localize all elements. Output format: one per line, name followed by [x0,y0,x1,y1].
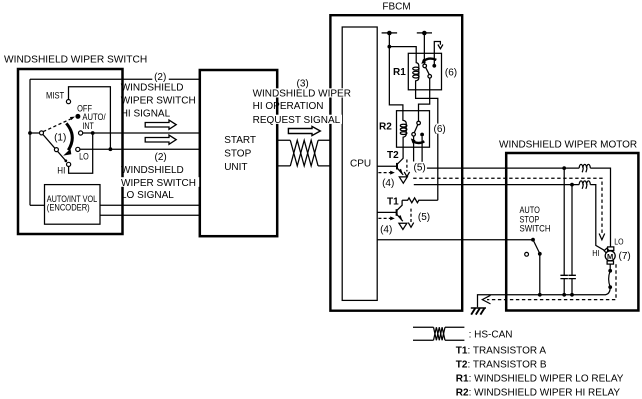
svg-text:HI: HI [57,165,65,175]
ground: body ground at FBCM [471,307,486,309]
motor internal auto-stop contact [609,264,611,270]
wire: R2 moving contact drop [413,136,415,161]
node: branch to R1 coil [387,45,391,49]
label: windshield wiper hi operation request signal [252,88,356,97]
wire: auto stop switch drop [539,254,541,295]
label (6) R2 [432,124,448,134]
svg-text:WINDSHIELD WIPER: WINDSHIELD WIPER [253,88,351,99]
svg-text:WIPER SWITCH: WIPER SWITCH [121,95,196,106]
capacitor 2 [571,185,573,276]
switch lever dashed (OFF position) [43,119,71,132]
svg-text:WINDSHIELD WIPER MOTOR: WINDSHIELD WIPER MOTOR [499,139,637,150]
contact: MIST [66,100,70,104]
wire: wiper LO feed (5) to motor [422,167,579,169]
contact: LO [76,147,80,151]
wire: LO signal to start stop unit [80,148,200,150]
transistor T1 [377,211,396,213]
R2 contacts [414,125,418,133]
svg-text:STOP: STOP [224,149,251,160]
hollow arrow (3) request signal [288,126,320,135]
auto stop switch [531,238,535,242]
svg-text:LO SIGNAL: LO SIGNAL [121,190,174,201]
wire: MIST contact riser and top route [69,87,111,149]
svg-text:CPU: CPU [350,158,371,169]
ground: T2 emitter [399,177,407,183]
wire: R2 NC contact drop joins wiper LO feed [421,136,423,168]
node: junction dot on common feed [28,131,32,135]
ground: T1 emitter [399,223,407,229]
contact: OFF (dot) [75,114,80,119]
svg-text:(ENCODER): (ENCODER) [47,203,90,213]
switch pivot [40,131,44,135]
FBCM box [330,15,462,311]
svg-text:WIPER SWITCH: WIPER SWITCH [121,178,196,189]
signal arrow LO [145,135,176,144]
svg-text:R2: WINDSHIELD WIPER HI RELAY: R2: WINDSHIELD WIPER HI RELAY [456,387,621,398]
contact: AUTO/INT [79,131,83,135]
R2 coil [403,111,406,148]
svg-text:T2: TRANSISTOR B: T2: TRANSISTOR B [456,359,547,370]
svg-text:FBCM: FBCM [382,1,410,12]
power stub 1 [382,32,398,34]
start stop unit box [200,70,277,236]
svg-text:HI SIGNAL: HI SIGNAL [121,108,171,119]
wire: to R1 coil top [389,47,416,54]
choke coil 2 [579,181,590,185]
node: junction HI feed to capacitor [570,183,574,187]
flow arrow (5) at T1 [410,209,412,223]
svg-text:(5): (5) [414,163,426,174]
node: junction on HI signal wire [91,131,95,135]
svg-text:(1): (1) [54,132,66,143]
wire: battery feed 1 down [389,33,403,111]
svg-text:SWITCH: SWITCH [520,224,551,234]
svg-text:MIST: MIST [46,91,65,101]
node: junction LO feed to capacitor [562,166,566,170]
svg-text:REQUEST SIGNAL: REQUEST SIGNAL [253,115,341,126]
wire: encoder output 2 [100,214,200,216]
R1 coil [416,53,419,90]
label (5) T2 [412,162,427,173]
legend: HS-CAN symbol [413,327,464,340]
svg-text:M: M [607,252,613,261]
svg-text:WINDSHIELD: WINDSHIELD [121,165,184,176]
svg-text:T1: T1 [387,196,399,207]
svg-text:R1: R1 [393,67,406,78]
svg-text:START: START [224,135,256,146]
svg-text:R2: R2 [379,122,392,133]
wire: HI contact loop [69,133,93,173]
flow arrow (4) into T1 base [378,217,390,219]
svg-text:(6): (6) [434,124,446,135]
CPU box [342,27,377,300]
wire: battery feed 2 to R1 common [423,33,425,64]
resistor in T1 collector [402,198,438,203]
signal arrow HI [145,120,176,129]
wire: R1 coil return down to T1 [416,90,438,201]
switch lever solid (pointing to HI) [43,134,66,160]
wire: R1 output down to R2 common [419,78,430,121]
relay R1 box [408,53,441,90]
wire: wiper HI feed to motor [414,184,579,186]
label (2) on MIST wire [152,72,169,81]
motor M (7) [608,247,614,251]
svg-text:R1: WINDSHIELD WIPER LO RELAY: R1: WINDSHIELD WIPER LO RELAY [456,374,624,385]
svg-text:HI: HI [592,249,599,258]
R1 lever arc [423,59,436,62]
power stub 2 [417,32,432,34]
wire: dot to pivot [30,132,40,134]
wire: MIST signal top run to start stop unit [30,78,200,80]
capacitor 1 [563,168,565,275]
relay R2 box [397,111,430,148]
svg-text:(4): (4) [382,178,394,189]
svg-text:(5): (5) [418,212,430,223]
wire: motor ground return [478,295,605,308]
svg-text:HI OPERATION: HI OPERATION [253,101,324,112]
flow arrow (4) into T2 base [378,172,390,174]
wire: AUTO/INT (HI signal) to start stop unit [83,132,200,134]
HS-CAN bus twisted pair [278,140,331,166]
svg-text:UNIT: UNIT [224,162,247,173]
svg-text:WINDSHIELD WIPER SWITCH: WINDSHIELD WIPER SWITCH [4,54,147,65]
wire: CPU to auto stop switch [377,239,533,241]
R2 lever arc [413,141,425,143]
encoder box AUTO/INT VOL [45,185,101,225]
choke coil 1 [579,164,590,168]
svg-text:LO: LO [614,237,624,247]
windshield wiper motor box [506,153,638,311]
svg-text:: HS-CAN: : HS-CAN [469,329,513,340]
svg-text:WINDSHIELD: WINDSHIELD [121,83,184,94]
switch lever mid circle [54,148,58,152]
svg-text:T2: T2 [387,150,399,161]
windshield wiper switch box [18,69,123,234]
transistor T2 [377,165,396,167]
node: junction MIST to LO wire [109,147,113,151]
flow arrow (5) at T2 [406,160,408,172]
contact: HI [67,162,71,166]
R1 contacts [426,67,430,75]
dashed flow arrow to ground [487,264,616,299]
svg-text:T1: TRANSISTOR A: T1: TRANSISTOR A [456,345,547,356]
svg-text:INT: INT [82,121,94,131]
svg-text:(6): (6) [445,68,457,79]
wire: encoder input [30,204,45,206]
wire: encoder output 1 [100,204,200,206]
svg-text:(4): (4) [380,225,392,236]
dashed flow path to HI brush [413,178,602,233]
wire: R1 NC contact to external (6) bent arrow [434,42,440,65]
rotation arc (1) [66,123,72,150]
wire: common feed vertical (net C) [29,79,31,205]
svg-text:(7): (7) [619,251,631,262]
svg-text:(2): (2) [154,72,166,83]
svg-text:(2): (2) [155,152,167,163]
svg-text:LO: LO [79,152,89,162]
